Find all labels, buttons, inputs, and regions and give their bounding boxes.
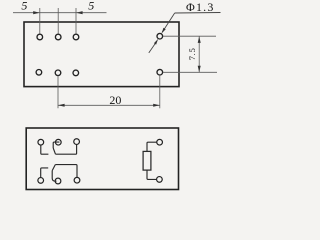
extension line below coil pin B [159,75,161,108]
hole pin 2 (top row middle) [55,34,61,40]
leader shoulder line under dia 1.3 label [175,12,221,15]
wire: top NO rail to pin3 [56,145,77,155]
pin 1 terminal circle (NC top) [38,139,44,145]
svg-text:20: 20 [109,93,121,107]
relay body outline (bottom / schematic view) [26,128,178,190]
arrowhead pointing right at pin1 extension [33,11,40,14]
pin 6 terminal circle (NO bottom) [74,177,80,183]
wire: pin5 movable-arm hook [52,171,56,182]
relay body outline (top / mounting-hole view) [24,22,179,87]
hole pin 6 (bottom row right of cluster) [73,70,79,76]
wire: coil bottom lead to terminal B [147,170,157,179]
wire: pin2 movable-arm hook [53,142,59,148]
arrowhead pointing down at 7.5-dim bottom [198,66,201,73]
leader diagonal to hole coil pin A [162,13,175,32]
pin 3 terminal circle (NO top) [74,139,80,145]
svg-text:5: 5 [21,0,27,13]
arrowhead pointing left at pin3 extension [76,11,83,14]
svg-text:Φ1.3: Φ1.3 [186,0,215,14]
extension line above hole pin 1 [39,8,41,34]
hole pin 3 (top row right of cluster) [73,34,79,40]
extension line above hole pin 3 [75,8,77,34]
pin 4 terminal circle (NC bottom) [38,178,44,184]
hole pin 1 (top row left) [37,34,43,40]
extension line right of coil pin B [163,71,217,73]
wire: pin4 stationary contact stub [41,168,49,178]
coil terminal circle A [157,139,163,145]
pin 5 terminal circle (common bottom) [55,178,61,184]
arrowhead pointing down-left at hole edge [161,28,165,34]
wire: bottom movable blade [52,165,55,171]
arrowhead pointing up-right at opposite hole edge [154,39,158,45]
wire: pin1 stationary contact stub [41,145,49,154]
svg-text:5: 5 [88,0,94,13]
extension line right of coil pin A [163,35,216,37]
extension line above hole pin 2 [57,8,59,34]
coil terminal circle B [157,177,163,183]
arrowhead pointing left at 20-dim left end [58,104,65,107]
dimension line 7.5 (vertical) [198,36,200,72]
arrowhead pointing up at 7.5-dim top [198,36,201,43]
coil K1 (rectangle) [143,151,151,170]
svg-text:7.5: 7.5 [188,47,197,60]
arrowhead pointing right at 20-dim right end [153,104,160,107]
extension line below hole pin 5 [57,76,59,109]
hole coil pin A (top right, dia 1.3) [157,33,163,39]
wire: coil top lead to terminal A [147,142,157,151]
hole pin 5 (bottom row middle) [55,70,61,76]
leader tail line lower-left [149,44,155,53]
hole pin 4 (bottom row left) [36,70,42,76]
dimension line (5 / 5 pitch, horizontal) [13,12,107,14]
wire: top movable blade [53,148,55,154]
dimension line 20 (horizontal) [58,104,160,106]
wire: bottom NO rail to pin6 [55,165,77,178]
hole coil pin B (bottom right) [157,69,163,75]
pin 2 terminal circle (common top) [55,139,61,145]
